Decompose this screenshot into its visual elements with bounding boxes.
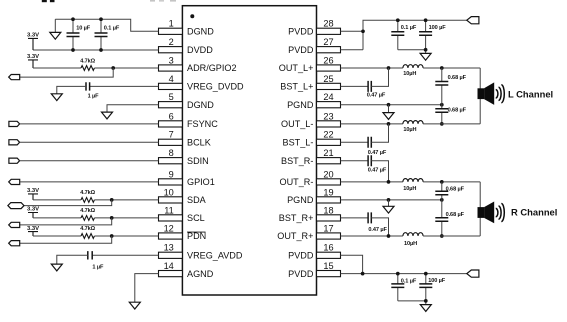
pin 22 box — [317, 139, 341, 145]
svg-text:26: 26 — [323, 55, 333, 65]
pin 8 box — [159, 158, 183, 164]
terminal tag PDN — [9, 241, 20, 246]
svg-text:0.68 µF: 0.68 µF — [446, 212, 465, 218]
pin 6 box — [159, 121, 183, 127]
junction dot C7 top — [396, 18, 400, 22]
wire C13 to OUT_R- node — [371, 161, 388, 182]
pin 23 box — [317, 121, 341, 127]
wire C14 to OUT_R+ node — [371, 218, 388, 236]
svg-text:3: 3 — [169, 55, 174, 65]
svg-text:4.7kΩ: 4.7kΩ — [80, 58, 95, 64]
wire 3.3V rail to pin2 DVDD — [33, 49, 159, 51]
svg-text:10: 10 — [164, 187, 174, 197]
svg-text:4.7kΩ: 4.7kΩ — [80, 190, 95, 196]
resistor 4.7k (SCL pullup) — [80, 208, 95, 220]
U1 pin-1 orientation dot — [190, 14, 194, 18]
svg-text:0.68 µF: 0.68 µF — [448, 107, 467, 113]
wire PGND-L ground stem — [388, 105, 390, 113]
ground (pin5 DGND) — [102, 112, 113, 119]
svg-text:0.47 µF: 0.47 µF — [368, 227, 387, 233]
svg-text:AGND: AGND — [187, 269, 214, 279]
svg-text:0.1 µF: 0.1 µF — [401, 25, 417, 31]
svg-text:7: 7 — [169, 130, 174, 140]
ground (top PVDD caps) — [420, 53, 431, 60]
wire SDIN to pin 8 — [20, 160, 159, 162]
svg-text:DGND: DGND — [187, 27, 214, 37]
terminal tag BCLK — [9, 140, 20, 145]
svg-text:0.68 µF: 0.68 µF — [448, 75, 467, 81]
svg-text:10µH: 10µH — [403, 186, 416, 192]
junction dot C18 top — [424, 272, 428, 276]
pin 26 box — [317, 65, 341, 71]
capacitor C7 0.1uF — [391, 20, 417, 50]
wire PGND-R ground stem — [388, 200, 390, 206]
svg-text:0.47 µF: 0.47 µF — [368, 150, 387, 156]
svg-text:100 µF: 100 µF — [429, 25, 447, 31]
junction dot OUT_L+ / BST — [387, 66, 391, 70]
capacitor C14 0.47uF (BST_R+) — [368, 212, 387, 232]
wire pin24 PGND — [341, 104, 442, 106]
svg-text:PVDD: PVDD — [288, 251, 314, 261]
svg-text:VREG_DVDD: VREG_DVDD — [187, 82, 244, 92]
wire pin28 PVDD — [341, 30, 364, 32]
terminal tag PVDD top — [467, 17, 479, 24]
pin 12 label PDN with overline — [187, 231, 206, 241]
svg-text:SCL: SCL — [187, 213, 205, 223]
svg-text:R Channel: R Channel — [511, 207, 557, 218]
svg-text:4.7kΩ: 4.7kΩ — [80, 208, 95, 214]
svg-text:SDIN: SDIN — [187, 156, 209, 166]
capacitor C5 1uF — [86, 82, 99, 99]
supply 3.3V (DVDD) — [27, 33, 39, 50]
wire pin14 AGND — [135, 274, 159, 303]
wire SDA tag riser — [24, 200, 112, 206]
pin 21 box — [317, 158, 341, 164]
junction dot OUT_R+ / C16 — [440, 234, 444, 238]
wire 3.3V to resistor (SCL) — [33, 217, 81, 219]
capacitor C15 0.68uF — [435, 182, 464, 200]
terminal tag SDIN — [9, 158, 20, 163]
pin 10 box — [159, 197, 183, 203]
svg-text:21: 21 — [323, 148, 333, 158]
wire pin17 OUT_R+ — [341, 235, 403, 237]
svg-text:DGND: DGND — [187, 100, 214, 110]
svg-text:0.47 µF: 0.47 µF — [368, 167, 387, 173]
pin 13 box — [159, 252, 183, 258]
svg-text:3.3V: 3.3V — [27, 188, 39, 194]
terminal tag FSYNC — [9, 121, 20, 126]
junction dot C8 top — [424, 18, 428, 22]
svg-text:OUT_L-: OUT_L- — [281, 119, 313, 129]
wire ADR tag riser — [20, 68, 114, 77]
capacitor C11 0.68uF — [435, 68, 466, 105]
junction dot pin16/15 — [361, 272, 365, 276]
svg-text:PVDD: PVDD — [288, 45, 314, 55]
svg-text:16: 16 — [323, 243, 333, 253]
junction dot C1 top — [71, 17, 75, 21]
junction dot PVDD top — [361, 29, 365, 33]
capacitor C9 0.47uF (BST_L+) — [367, 81, 386, 99]
wire BCLK to pin 7 — [20, 141, 159, 143]
svg-text:6: 6 — [169, 111, 174, 121]
pin 16 box — [317, 252, 341, 258]
wire L speaker vertical — [479, 68, 481, 124]
junction dot C2 top — [99, 17, 103, 21]
pin 4 box — [159, 83, 183, 89]
wire pin20 OUT_R- — [341, 181, 403, 183]
ground (VREG_AVDD) — [51, 264, 62, 271]
svg-text:15: 15 — [323, 261, 333, 271]
junction dot OUT_L+ / C11 — [440, 66, 444, 70]
wire L3 to speaker node — [423, 181, 480, 183]
svg-text:BST_R+: BST_R+ — [279, 213, 314, 223]
wire resistor to pin 10 — [94, 199, 158, 201]
cropped title text fragment — [42, 0, 47, 2]
ground (VREG_DVDD) — [51, 94, 62, 101]
resistor 4.7k (SDA pullup) — [80, 190, 95, 202]
supply 3.3V (SCL pullup) — [27, 207, 39, 218]
wire GPIO1 to pin 9 — [20, 181, 159, 183]
pin 24 box — [317, 102, 341, 108]
wire FSYNC to pin 6 — [20, 123, 159, 125]
resistor 4.7k (PDN pullup) — [80, 226, 95, 238]
svg-text:3.3V: 3.3V — [27, 207, 39, 213]
pin 17 box — [317, 233, 341, 239]
wire resistor to pin 12 — [94, 235, 158, 237]
wire pin25 BST_L+ — [341, 85, 369, 87]
junction dot C17 top — [396, 272, 400, 276]
svg-text:14: 14 — [164, 261, 174, 271]
junction dot C8 bottom — [424, 48, 428, 52]
wire pin18 BST_R+ — [341, 217, 369, 219]
junction dot OUT_L- / C12 — [440, 122, 444, 126]
pin 28 box — [317, 28, 341, 34]
wire pin1 DGND to top rail — [55, 19, 158, 31]
svg-text:22: 22 — [323, 130, 333, 140]
speaker R channel — [478, 202, 505, 224]
svg-text:28: 28 — [323, 19, 333, 29]
svg-text:ADR/GPIO2: ADR/GPIO2 — [187, 63, 237, 73]
pin 14 box — [159, 271, 183, 277]
svg-text:BST_L-: BST_L- — [283, 138, 314, 148]
ground (AGND) — [129, 302, 140, 309]
junction dot PGND-R — [387, 198, 391, 202]
junction dot OUT_L- / BST — [387, 122, 391, 126]
capacitor C2 0.1uF — [95, 19, 120, 50]
pin 18 box — [317, 215, 341, 221]
wire pin5 DGND — [107, 105, 159, 112]
svg-text:3.3V: 3.3V — [27, 54, 39, 60]
svg-text:PVDD: PVDD — [288, 269, 314, 279]
supply 3.3V (SDA pullup) — [27, 188, 39, 200]
wire pin21 BST_R- — [341, 160, 369, 162]
svg-text:0.1 µF: 0.1 µF — [104, 26, 120, 32]
svg-text:4: 4 — [169, 74, 174, 84]
terminal tag GPIO1 — [9, 179, 20, 184]
wire ground stem (top-left) — [54, 19, 56, 32]
capacitor C12 0.68uF — [435, 105, 466, 124]
svg-text:0.1 µF: 0.1 µF — [401, 279, 417, 285]
capacitor C17 0.1uF — [391, 274, 417, 301]
pin 11 box — [159, 215, 183, 221]
capacitor C13 0.47uF (BST_R-) — [368, 155, 387, 173]
svg-text:PGND: PGND — [287, 195, 314, 205]
wire 3.3V to resistor (PDN) — [33, 235, 81, 237]
wire C17-C18 ground rail — [398, 301, 426, 305]
wire 3.3V to resistor (SDA) — [33, 199, 81, 201]
junction dot node SCL — [110, 216, 114, 220]
terminal tag SDA — [8, 203, 24, 209]
svg-text:FSYNC: FSYNC — [187, 119, 218, 129]
svg-text:20: 20 — [323, 169, 333, 179]
svg-text:L Channel: L Channel — [508, 89, 553, 100]
terminal tag ADR/GPIO2 — [9, 75, 20, 80]
pin 2 box — [159, 47, 183, 53]
svg-text:2: 2 — [169, 37, 174, 47]
svg-text:OUT_L+: OUT_L+ — [279, 63, 314, 73]
svg-text:OUT_R-: OUT_R- — [280, 177, 314, 187]
svg-text:GPIO1: GPIO1 — [187, 177, 215, 187]
ground (bottom PVDD caps) — [420, 305, 431, 312]
wire pin26 OUT_L+ — [341, 67, 403, 69]
wire L1 to speaker node — [423, 67, 480, 69]
svg-text:1 µF: 1 µF — [92, 265, 104, 271]
svg-text:DVDD: DVDD — [187, 45, 213, 55]
junction dot PGND / C15 — [440, 198, 444, 202]
resistor R1 4.7k — [80, 58, 95, 70]
inductor L3 10uH — [403, 179, 423, 192]
svg-text:19: 19 — [323, 187, 333, 197]
capacitor C18 100uF — [419, 274, 446, 301]
svg-text:3.3V: 3.3V — [27, 33, 39, 39]
svg-text:VREG_AVDD: VREG_AVDD — [187, 251, 243, 261]
capacitor C16 0.68uF — [435, 200, 464, 236]
wire L4 to speaker node — [423, 235, 480, 237]
pin 15 box — [317, 271, 341, 277]
wire 3.3V to resistor R1 — [33, 67, 81, 69]
capacitor C10 0.47uF (BST_L-) — [368, 137, 387, 156]
svg-text:PDN: PDN — [187, 231, 206, 241]
pin 1 box — [159, 28, 183, 34]
svg-text:5: 5 — [169, 92, 174, 102]
svg-text:12: 12 — [164, 223, 174, 233]
junction dot C1 bottom — [71, 48, 75, 52]
pin 25 box — [317, 83, 341, 89]
svg-text:24: 24 — [323, 92, 333, 102]
ground (PGND R) — [383, 206, 394, 213]
junction dot C2 bottom — [99, 48, 103, 52]
wire R speaker vertical — [479, 182, 481, 236]
wire C7-C8 ground rail — [398, 50, 426, 54]
wire pin13 to C6 — [92, 254, 158, 256]
junction dot OUT_R- / BST — [387, 180, 391, 184]
svg-text:18: 18 — [323, 205, 333, 215]
capacitor C8 100uF — [419, 20, 446, 50]
svg-text:BST_R-: BST_R- — [281, 156, 313, 166]
svg-text:10µH: 10µH — [404, 241, 417, 247]
cropped title text fragment 2 — [150, 0, 155, 2]
wire PDN tag riser — [20, 236, 112, 243]
junction dot node ADR — [111, 66, 115, 70]
svg-text:10µH: 10µH — [403, 127, 416, 133]
wire pin4 to C5 — [90, 85, 159, 87]
wire C5 to ground — [57, 86, 86, 93]
ground (top-left rail) — [50, 32, 61, 39]
inductor L1 10uH — [403, 65, 423, 77]
wire C10 to OUT_L- node — [371, 124, 388, 142]
wire C6 to ground — [57, 255, 88, 264]
svg-text:10µH: 10µH — [403, 71, 416, 77]
svg-text:OUT_R+: OUT_R+ — [277, 231, 313, 241]
svg-text:0.68 µF: 0.68 µF — [446, 187, 465, 193]
svg-text:17: 17 — [323, 223, 333, 233]
junction dot OUT_R- / C15 — [440, 180, 444, 184]
svg-text:PVDD: PVDD — [288, 27, 314, 37]
svg-text:11: 11 — [164, 205, 174, 215]
inductor L4 10uH — [403, 233, 423, 247]
wire pin22 BST_L- — [341, 141, 369, 143]
svg-text:PGND: PGND — [287, 100, 314, 110]
ground (PGND L) — [383, 113, 394, 120]
svg-text:27: 27 — [323, 37, 333, 47]
svg-text:1: 1 — [169, 19, 174, 29]
terminal tag PVDD bottom — [467, 270, 479, 277]
svg-text:SDA: SDA — [187, 195, 207, 205]
pin 12 box — [159, 233, 183, 239]
svg-text:13: 13 — [164, 243, 174, 253]
wire pin23 OUT_L- — [341, 123, 403, 125]
svg-text:8: 8 — [169, 148, 174, 158]
wire SCL tag riser — [20, 218, 112, 225]
svg-text:100 µF: 100 µF — [428, 278, 446, 284]
svg-text:BCLK: BCLK — [187, 138, 211, 148]
capacitor C1 10uF — [67, 19, 91, 50]
junction dot OUT_R+ / BST — [387, 234, 391, 238]
svg-text:9: 9 — [169, 169, 174, 179]
capacitor C6 1uF — [88, 251, 104, 271]
svg-text:1 µF: 1 µF — [88, 94, 100, 100]
speaker L channel — [478, 82, 505, 105]
wire R1 to pin3 — [94, 67, 158, 69]
wire pin27 PVDD — [341, 49, 364, 51]
wire pin15 PVDD rail — [341, 273, 467, 275]
junction dot PGND / C11 — [440, 103, 444, 107]
pin 9 box — [159, 179, 183, 185]
inductor L2 10uH — [403, 121, 423, 133]
pin 27 box — [317, 47, 341, 53]
wire pin16 PVDD — [341, 255, 363, 273]
svg-text:BST_L+: BST_L+ — [280, 82, 313, 92]
wire L2 to speaker node — [423, 123, 480, 125]
svg-text:3.3V: 3.3V — [27, 226, 39, 232]
svg-text:23: 23 — [323, 111, 333, 121]
pin 3 box — [159, 65, 183, 71]
pin 7 box — [159, 139, 183, 145]
svg-text:10 µF: 10 µF — [76, 26, 91, 32]
terminal tag SCL — [9, 222, 20, 227]
svg-text:4.7kΩ: 4.7kΩ — [80, 226, 95, 232]
supply 3.3V (ADR pullup) — [27, 54, 39, 68]
wire PVDD bus vertical — [363, 20, 467, 50]
junction dot PGND-L — [387, 103, 391, 107]
pin 5 box — [159, 102, 183, 108]
pin 19 box — [317, 197, 341, 203]
op-amp U1 (audio amplifier IC body) — [182, 6, 316, 295]
svg-text:0.47 µF: 0.47 µF — [367, 92, 386, 98]
junction dot node PDN — [110, 234, 114, 238]
wire resistor to pin 11 — [94, 217, 158, 219]
pin 20 box — [317, 179, 341, 185]
svg-text:25: 25 — [323, 74, 333, 84]
wire pin19 PGND — [341, 199, 442, 201]
wire C9 to OUT_L+ node — [371, 68, 388, 86]
junction dot node SDA — [110, 198, 114, 202]
junction dot C18 bottom — [424, 299, 428, 303]
supply 3.3V (PDN pullup) — [27, 226, 39, 236]
